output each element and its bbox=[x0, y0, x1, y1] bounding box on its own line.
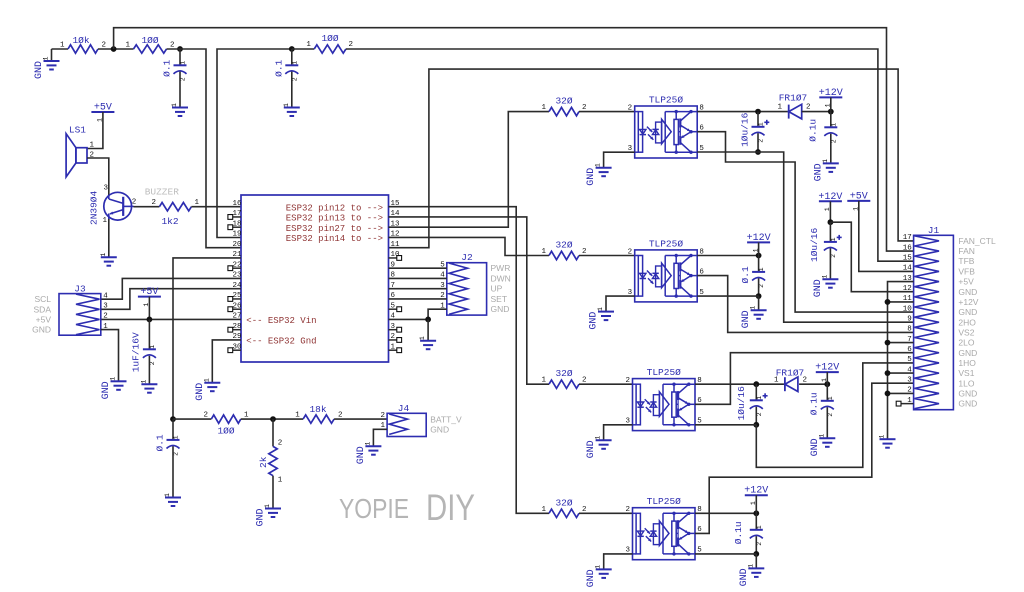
svg-text:1: 1 bbox=[125, 42, 130, 50]
wire GND to R 10k bbox=[52, 48, 69, 50]
svg-text:1: 1 bbox=[758, 122, 765, 126]
wire node C to R 100 second bbox=[292, 48, 314, 50]
svg-text:1: 1 bbox=[364, 442, 371, 446]
no-connect stubs ESP32 left bbox=[228, 215, 241, 353]
wire +5V to J1 VFB bbox=[859, 201, 914, 272]
svg-text:1: 1 bbox=[278, 477, 283, 485]
+12V power row1 bbox=[819, 88, 843, 107]
svg-text:GND: GND bbox=[256, 508, 267, 526]
wire J1 pin7 to bus bbox=[888, 342, 914, 344]
svg-text:+12V: +12V bbox=[958, 297, 978, 307]
svg-text:GND: GND bbox=[813, 279, 824, 297]
svg-text:1: 1 bbox=[195, 199, 200, 207]
svg-text:1k2: 1k2 bbox=[161, 216, 178, 227]
svg-text:Ø.1u: Ø.1u bbox=[733, 521, 744, 544]
svg-text:GND: GND bbox=[813, 163, 824, 181]
wire ESP32 to R320 row3 bbox=[389, 217, 550, 384]
wire ESP32 pin21 down-left bbox=[173, 258, 241, 419]
wire node F down to 2k bbox=[272, 419, 274, 446]
wire J1 pin2 to bus bbox=[888, 392, 914, 394]
wire U2 pin5 to J1 2HO bbox=[697, 152, 913, 322]
svg-text:1: 1 bbox=[830, 237, 837, 241]
ground (J4) bbox=[356, 442, 382, 465]
wire FR107 to +12V node row1 bbox=[802, 111, 831, 113]
svg-text:ESP32 pin12 to -->: ESP32 pin12 to --> bbox=[286, 203, 383, 213]
junction bus pin2 bbox=[885, 391, 891, 397]
svg-text:1: 1 bbox=[595, 436, 602, 440]
wire node B to ESP32 pin20 bbox=[167, 49, 242, 248]
wire row3 output to J1 1HO bbox=[756, 363, 913, 467]
svg-text:1: 1 bbox=[110, 377, 117, 381]
svg-text:1: 1 bbox=[60, 42, 65, 50]
ground (Q1 emitter) bbox=[100, 253, 117, 266]
svg-text:12: 12 bbox=[903, 285, 912, 293]
svg-text:+12V: +12V bbox=[815, 363, 839, 374]
svg-text:1LO: 1LO bbox=[958, 378, 974, 388]
svg-text:16: 16 bbox=[903, 244, 913, 252]
capacitor 0.1u row3 bbox=[809, 384, 834, 438]
svg-text:SCL: SCL bbox=[34, 294, 51, 304]
svg-text:3: 3 bbox=[907, 376, 912, 384]
svg-text:3: 3 bbox=[103, 185, 108, 193]
capacitor 0.1 first bbox=[162, 49, 187, 108]
resistor 10k bbox=[60, 35, 106, 53]
wire +12V lead row3 bbox=[826, 372, 828, 384]
svg-text:1: 1 bbox=[203, 378, 210, 382]
wire ESP32 pin8 to J2 pin4 bbox=[389, 277, 447, 279]
svg-text:2: 2 bbox=[349, 41, 354, 49]
svg-text:+5V: +5V bbox=[958, 277, 974, 287]
svg-text:BATT_V: BATT_V bbox=[430, 414, 462, 424]
junction bus pin11 bbox=[885, 299, 891, 305]
ground (ESP32 pin29) bbox=[195, 378, 221, 401]
wire node K to J1 GND12 bbox=[830, 222, 913, 292]
svg-text:GND: GND bbox=[586, 569, 597, 587]
svg-text:GND: GND bbox=[958, 348, 977, 358]
svg-text:Ø.1u: Ø.1u bbox=[807, 119, 818, 142]
svg-text:+5V: +5V bbox=[36, 314, 52, 324]
svg-text:1: 1 bbox=[595, 565, 602, 569]
svg-text:TLP25Ø: TLP25Ø bbox=[647, 496, 682, 507]
svg-text:1: 1 bbox=[541, 377, 546, 385]
svg-text:GND: GND bbox=[958, 388, 977, 398]
svg-text:GND: GND bbox=[34, 61, 45, 79]
wire ESP32 pin9 to J2 pin5 bbox=[389, 267, 447, 269]
speaker LS1 bbox=[66, 124, 94, 177]
svg-text:GND: GND bbox=[810, 438, 821, 456]
svg-text:1: 1 bbox=[822, 159, 829, 163]
svg-text:1: 1 bbox=[756, 396, 763, 400]
svg-text:<-- ESP32 Gnd: <-- ESP32 Gnd bbox=[246, 337, 316, 347]
svg-text:1: 1 bbox=[777, 104, 782, 112]
junction node J3a bbox=[753, 422, 759, 428]
svg-text:ESP32 pin14 to -->: ESP32 pin14 to --> bbox=[286, 234, 383, 244]
junction bus pin7 bbox=[885, 340, 891, 346]
+12V power row4 bbox=[744, 486, 768, 505]
svg-text:GND: GND bbox=[32, 325, 51, 335]
wire +5V to node D bbox=[148, 297, 150, 320]
wire ESP32 pin27 to J3 pin2 bbox=[101, 318, 241, 320]
svg-text:Ø.1: Ø.1 bbox=[273, 59, 284, 76]
svg-text:GND: GND bbox=[430, 425, 449, 435]
svg-text:VS1: VS1 bbox=[958, 368, 974, 378]
op-amp U3 TLP250 row2 bbox=[628, 238, 705, 302]
svg-text:2: 2 bbox=[151, 199, 156, 207]
+5V power (J3) bbox=[138, 287, 161, 306]
svg-text:11: 11 bbox=[391, 241, 401, 249]
junction node B bbox=[177, 46, 183, 52]
junction node I1 bbox=[828, 109, 834, 115]
wire J1 pin13 bus bbox=[888, 282, 914, 440]
wire U4 pin8 to FR107 row3 bbox=[695, 383, 785, 385]
wire node G up to J2 pin1 bbox=[428, 309, 447, 319]
svg-text:2: 2 bbox=[338, 412, 343, 420]
svg-text:1: 1 bbox=[879, 435, 886, 439]
svg-text:1: 1 bbox=[821, 275, 828, 279]
svg-text:+12V: +12V bbox=[819, 88, 843, 99]
svg-text:TLP25Ø: TLP25Ø bbox=[649, 95, 684, 106]
svg-text:GND: GND bbox=[356, 446, 367, 464]
text ESP32 annotations bbox=[246, 203, 383, 346]
svg-text:GND: GND bbox=[491, 304, 510, 314]
ground (cap 0.1 first) bbox=[171, 103, 188, 116]
svg-text:J2: J2 bbox=[461, 252, 473, 263]
junction node H3 bbox=[753, 381, 759, 387]
svg-text:5: 5 bbox=[907, 356, 912, 364]
capacitor 0.1 row2 bbox=[740, 256, 765, 297]
op-amp U2 TLP250 row1 bbox=[628, 95, 705, 159]
ground (cap 0.1 second) bbox=[283, 103, 300, 116]
junction node J1a bbox=[755, 149, 761, 155]
svg-text:VFB: VFB bbox=[958, 266, 975, 276]
wire U3 pin8 to +12V row2 bbox=[697, 255, 758, 257]
wire U4 pin5 row3 bbox=[695, 424, 756, 426]
resistor 1k2 bbox=[151, 199, 199, 227]
wire R100 to node F bbox=[241, 418, 303, 420]
svg-text:GND: GND bbox=[739, 568, 750, 586]
ground (row4 output) bbox=[739, 554, 765, 587]
svg-text:1Øu/16: 1Øu/16 bbox=[739, 112, 750, 147]
wire Q1 emitter to GND bbox=[108, 219, 110, 257]
svg-text:TFB: TFB bbox=[958, 256, 974, 266]
junction bus pin4 bbox=[885, 370, 891, 376]
wire U2 pin3 to GND row1 bbox=[604, 152, 635, 168]
+12V power row2 bbox=[747, 233, 771, 252]
svg-text:1: 1 bbox=[597, 307, 604, 311]
svg-text:FR1Ø7: FR1Ø7 bbox=[779, 93, 808, 104]
junction node H2 bbox=[756, 253, 762, 259]
ground (U4 pin3) bbox=[586, 436, 612, 459]
svg-text:1: 1 bbox=[164, 493, 171, 497]
svg-text:1: 1 bbox=[244, 412, 249, 420]
wire node G to GND bbox=[427, 319, 429, 340]
wire +12V lead mid bbox=[829, 201, 831, 222]
capacitor 10u/16 mid bbox=[809, 222, 842, 279]
svg-text:18k: 18k bbox=[309, 404, 326, 415]
no-connect J1 pin1 bbox=[896, 401, 913, 406]
transistor Q1 2N3904 bbox=[89, 185, 137, 225]
op-amp U4 TLP250 row3 bbox=[625, 367, 702, 431]
svg-text:GND: GND bbox=[958, 307, 977, 317]
svg-text:1: 1 bbox=[830, 123, 837, 127]
svg-text:6: 6 bbox=[907, 346, 912, 354]
svg-text:32Ø: 32Ø bbox=[555, 368, 572, 379]
ground (J1 bus) bbox=[879, 435, 896, 448]
svg-text:2k: 2k bbox=[258, 456, 269, 468]
svg-text:+5V: +5V bbox=[140, 287, 158, 298]
svg-text:Ø.1: Ø.1 bbox=[740, 266, 751, 283]
wire U5 pin5 row4 bbox=[695, 553, 756, 555]
svg-text:1: 1 bbox=[541, 248, 546, 256]
wire U2 pin6 to J1 GND10 bbox=[697, 132, 913, 312]
wire LS1 pin2 to Q1 collector bbox=[87, 158, 109, 196]
wire R320 to U3 pin2 row2 bbox=[579, 255, 635, 257]
wire U5 pin6 to J1 1LO bbox=[695, 383, 914, 533]
svg-text:14: 14 bbox=[903, 265, 913, 273]
resistor 100 second bbox=[306, 33, 353, 53]
svg-text:1ØØ: 1ØØ bbox=[321, 33, 338, 44]
wire U5 pin8 to +12V row4 bbox=[695, 512, 756, 514]
wire U2 pin8 to FR107 row1 bbox=[697, 111, 789, 113]
svg-text:1: 1 bbox=[818, 434, 825, 438]
svg-text:9: 9 bbox=[907, 315, 912, 323]
ground (row2 output) bbox=[741, 296, 767, 328]
svg-text:1: 1 bbox=[173, 435, 180, 439]
capacitor 10u/16 row1 bbox=[739, 112, 769, 152]
svg-text:1uF/16V: 1uF/16V bbox=[131, 332, 142, 372]
wire 10k to 100 bbox=[98, 48, 134, 50]
svg-text:10: 10 bbox=[903, 305, 913, 313]
+5V power mid bbox=[847, 191, 870, 210]
svg-text:1: 1 bbox=[419, 336, 426, 340]
connector J3 bbox=[32, 284, 108, 336]
svg-text:1Øu/16: 1Øu/16 bbox=[736, 386, 747, 421]
svg-text:J4: J4 bbox=[398, 403, 410, 414]
ground (U5 pin3) bbox=[586, 565, 612, 588]
svg-text:1: 1 bbox=[100, 253, 107, 257]
wire U5 pin3 to GND row4 bbox=[604, 554, 633, 570]
wire ESP32 pin7 to J2 pin3 bbox=[389, 288, 447, 290]
wire +12V lead row1 bbox=[830, 97, 832, 111]
wire ESP32 to R320 row1 bbox=[389, 112, 550, 228]
wire rail3 ESP32 pin11 to J1 FAN_CTL bbox=[389, 69, 914, 248]
resistor 320 row4 bbox=[541, 497, 586, 517]
ground (battery filter cap) bbox=[164, 493, 181, 506]
wire U4 pin3 to GND row3 bbox=[604, 425, 633, 441]
connector J4 bbox=[380, 403, 462, 437]
wire J3 pin1 to GND bbox=[101, 330, 119, 382]
svg-text:1: 1 bbox=[827, 396, 834, 400]
svg-text:2: 2 bbox=[380, 412, 385, 420]
ground (0.1u row3) bbox=[810, 434, 836, 457]
wire 18k to J4 bbox=[334, 418, 387, 420]
junction node C bbox=[289, 46, 295, 52]
resistor 320 row3 bbox=[541, 368, 586, 388]
svg-text:8: 8 bbox=[907, 326, 912, 334]
svg-text:J3: J3 bbox=[74, 284, 86, 295]
svg-text:VS2: VS2 bbox=[958, 327, 974, 337]
svg-text:GND: GND bbox=[958, 399, 977, 409]
ground (U2 pin3) bbox=[586, 163, 612, 186]
junction node I4 bbox=[753, 551, 759, 557]
diode FR107 row1 bbox=[777, 93, 810, 119]
ground (J2) bbox=[419, 336, 436, 349]
svg-text:<-- ESP32 Vin: <-- ESP32 Vin bbox=[246, 316, 316, 326]
svg-text:GND: GND bbox=[586, 440, 597, 458]
svg-text:2: 2 bbox=[132, 198, 137, 206]
svg-text:GND: GND bbox=[586, 168, 597, 186]
svg-text:1HO: 1HO bbox=[958, 358, 976, 368]
svg-text:TLP25Ø: TLP25Ø bbox=[647, 367, 682, 378]
+12V power row3 bbox=[815, 363, 839, 382]
wire rail1 (node A up to J1 FAN) bbox=[114, 28, 914, 251]
svg-text:SET: SET bbox=[491, 294, 508, 304]
wire ESP32 to R320 row2 bbox=[389, 237, 550, 255]
svg-text:17: 17 bbox=[903, 234, 912, 242]
ground (1uF cap) bbox=[140, 380, 157, 393]
svg-text:DWN: DWN bbox=[491, 273, 511, 283]
svg-text:20: 20 bbox=[232, 241, 242, 249]
svg-text:+12V: +12V bbox=[818, 192, 842, 203]
svg-text:1Øk: 1Øk bbox=[72, 35, 89, 46]
wire R320 to U2 pin2 row1 bbox=[579, 111, 635, 113]
svg-text:GND: GND bbox=[195, 383, 206, 401]
junction node A bbox=[111, 46, 117, 52]
wire rail2 to J1 TFB bbox=[346, 49, 914, 261]
resistor 320 row1 bbox=[541, 96, 586, 116]
wire J1 pin11 to bus bbox=[888, 301, 914, 303]
junction node I2 bbox=[756, 293, 762, 299]
resistor 320 row2 bbox=[541, 240, 586, 260]
junction node F bbox=[270, 416, 276, 422]
svg-text:Ø.1: Ø.1 bbox=[154, 434, 165, 451]
resistor 2k bbox=[258, 439, 283, 484]
wire ESP32 pin4 to J2 pin1 and GND bbox=[389, 318, 429, 320]
svg-text:1: 1 bbox=[747, 564, 754, 568]
svg-text:Ø.1u: Ø.1u bbox=[809, 392, 820, 415]
svg-text:+12V: +12V bbox=[744, 486, 768, 497]
wire ESP32 to R320 row4 bbox=[389, 207, 550, 514]
+12V power mid bbox=[818, 192, 842, 211]
wire +12V lead row4 bbox=[755, 495, 757, 513]
junction node H1 bbox=[755, 109, 761, 115]
svg-text:GND: GND bbox=[589, 312, 600, 330]
capacitor 0.1 second bbox=[273, 49, 298, 108]
svg-text:1: 1 bbox=[102, 217, 107, 225]
wire J4 pin1 to GND bbox=[373, 429, 387, 446]
ground (J3 pin1) bbox=[101, 377, 127, 400]
svg-text:GND: GND bbox=[958, 287, 977, 297]
wire Q1 base to R 1k2 bbox=[134, 206, 160, 208]
svg-text:3: 3 bbox=[103, 303, 108, 311]
ground (0.1u row1) bbox=[813, 159, 839, 182]
svg-text:1: 1 bbox=[140, 380, 147, 384]
junction node H4 bbox=[753, 510, 759, 516]
+5V power (speaker) bbox=[91, 103, 114, 122]
junction node E bbox=[170, 416, 176, 422]
wire ESP32 pin23 to J3 pin4 bbox=[101, 278, 241, 299]
svg-text:4: 4 bbox=[103, 292, 108, 300]
svg-text:2LO: 2LO bbox=[958, 338, 974, 348]
connector J1 bbox=[903, 225, 996, 410]
wire R320 to U4 pin2 row3 bbox=[579, 383, 633, 385]
wire node E to R100 bbox=[173, 418, 211, 420]
svg-text:1: 1 bbox=[306, 41, 311, 49]
svg-text:1: 1 bbox=[774, 377, 779, 385]
resistor 100 bottom bbox=[203, 412, 249, 437]
wire 1k2 to ESP32 pin16 bbox=[191, 206, 241, 208]
svg-text:J1: J1 bbox=[928, 225, 940, 236]
wire node C to ESP32 pin19 bbox=[217, 49, 292, 238]
capacitor 0.1u row1 bbox=[807, 112, 837, 164]
ground (2k) bbox=[256, 504, 282, 527]
wire J1 pin4 to bus bbox=[888, 372, 914, 374]
svg-text:1: 1 bbox=[264, 504, 271, 508]
capacitor 10u/16 row3 bbox=[736, 384, 768, 425]
capacitor 0.1 (battery filter) bbox=[154, 419, 179, 497]
svg-text:SDA: SDA bbox=[34, 304, 52, 314]
svg-text:1: 1 bbox=[180, 61, 187, 65]
svg-text:1: 1 bbox=[43, 56, 50, 60]
svg-text:19: 19 bbox=[232, 231, 241, 239]
junction node I3 bbox=[824, 381, 830, 387]
svg-text:ESP32 pin27 to -->: ESP32 pin27 to --> bbox=[286, 224, 383, 234]
svg-text:1Øu/16: 1Øu/16 bbox=[809, 228, 820, 263]
svg-text:LS1: LS1 bbox=[69, 124, 86, 135]
junction node G bbox=[425, 317, 431, 323]
no-connect stubs ESP32 right bbox=[389, 256, 402, 353]
wire FR107 to +12V node row3 bbox=[799, 383, 827, 385]
svg-text:Ø.1: Ø.1 bbox=[162, 59, 173, 76]
wire U3 pin3 to GND row2 bbox=[606, 296, 635, 312]
svg-text:1: 1 bbox=[541, 104, 546, 112]
svg-text:DIY: DIY bbox=[426, 487, 475, 528]
svg-text:32Ø: 32Ø bbox=[555, 240, 572, 251]
resistor 18k bbox=[295, 404, 342, 423]
svg-text:PWR: PWR bbox=[491, 263, 511, 273]
wire U3 pin5 row2 bbox=[697, 295, 758, 297]
svg-text:1: 1 bbox=[758, 267, 765, 271]
svg-text:15: 15 bbox=[903, 254, 913, 262]
svg-text:1: 1 bbox=[283, 103, 290, 107]
connector J2 bbox=[440, 252, 511, 315]
svg-text:GND: GND bbox=[741, 310, 752, 328]
svg-text:1: 1 bbox=[149, 345, 156, 349]
svg-text:32Ø: 32Ø bbox=[555, 96, 572, 107]
ground (U3 pin3) bbox=[589, 307, 615, 330]
svg-text:FAN: FAN bbox=[958, 246, 975, 256]
capacitor 1uF/16V bbox=[131, 319, 156, 384]
svg-text:1ØØ: 1ØØ bbox=[141, 35, 158, 46]
svg-text:1ØØ: 1ØØ bbox=[217, 426, 234, 437]
svg-text:2HO: 2HO bbox=[958, 317, 976, 327]
wire ESP32 pin24 to J3 pin3 bbox=[101, 289, 241, 310]
wire ESP32 pin29 to GND bbox=[212, 340, 241, 383]
svg-text:1: 1 bbox=[90, 142, 95, 150]
svg-text:2N39Ø4: 2N39Ø4 bbox=[89, 190, 100, 225]
svg-text:FAN_CTL: FAN_CTL bbox=[958, 236, 996, 246]
svg-text:FR1Ø7: FR1Ø7 bbox=[776, 367, 805, 378]
svg-text:2: 2 bbox=[628, 104, 633, 112]
svg-text:16: 16 bbox=[232, 200, 242, 208]
svg-text:2: 2 bbox=[628, 248, 633, 256]
junction node D (+5V) bbox=[147, 317, 153, 323]
svg-text:1: 1 bbox=[595, 163, 602, 167]
svg-text:2: 2 bbox=[203, 412, 208, 420]
diode FR107 row3 bbox=[774, 367, 807, 391]
svg-text:1: 1 bbox=[171, 103, 178, 107]
svg-text:1: 1 bbox=[295, 412, 300, 420]
